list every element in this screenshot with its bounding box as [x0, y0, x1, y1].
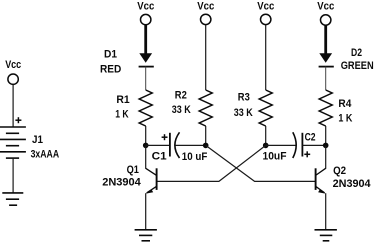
node B (R2/C1/cross wire)	[203, 143, 209, 149]
wire R4 to node D	[325, 126, 327, 145]
wire C1 to node B	[175, 144, 205, 146]
wire node B to Q2 base (cross-coupling)	[206, 145, 316, 181]
wire node C to C2 plate	[266, 144, 296, 146]
svg-text:R1: R1	[116, 94, 129, 106]
wire Q2 emitter to ground	[325, 193, 327, 230]
svg-text:Q1: Q1	[127, 164, 139, 176]
svg-text:2N3904: 2N3904	[102, 177, 141, 189]
svg-text:3xAAA: 3xAAA	[31, 148, 59, 160]
resistor R2 33K	[172, 90, 212, 126]
wire Vcc2 to R2	[205, 25, 207, 90]
LED D2 GREEN	[319, 25, 374, 72]
svg-text:10uF: 10uF	[263, 151, 287, 163]
Vcc terminal (battery branch)	[5, 59, 21, 84]
transistor Q2 2N3904	[316, 165, 372, 194]
svg-text:Vcc: Vcc	[197, 0, 214, 12]
resistor R4 1K	[319, 90, 353, 126]
ground (Q1 emitter)	[135, 230, 157, 241]
resistor R3 33K	[234, 90, 272, 126]
wire R1 to node A	[145, 126, 147, 145]
svg-text:C1: C1	[152, 150, 167, 162]
node D (R4/C2/Q2 collector)	[323, 143, 329, 149]
svg-text:J1: J1	[32, 134, 43, 146]
wire D1 cathode to R1	[145, 67, 147, 90]
wire R2 to node B	[205, 126, 207, 145]
svg-text:GREEN: GREEN	[341, 60, 374, 72]
svg-text:RED: RED	[100, 63, 121, 75]
wire R3 to node C	[265, 126, 267, 145]
svg-text:33 K: 33 K	[234, 107, 254, 119]
Vcc terminal 1 (D1 branch)	[137, 0, 154, 24]
svg-text:1 K: 1 K	[338, 113, 353, 125]
svg-text:C2: C2	[305, 132, 316, 144]
svg-text:D1: D1	[104, 49, 117, 61]
svg-text:2N3904: 2N3904	[333, 178, 372, 190]
svg-text:R2: R2	[175, 90, 187, 102]
wire node A to C1 plate	[146, 144, 170, 146]
svg-text:Vcc: Vcc	[5, 59, 21, 71]
svg-text:1 K: 1 K	[115, 108, 129, 120]
LED D1 RED	[100, 25, 154, 75]
wire C2 to node D	[302, 144, 325, 146]
svg-text:R4: R4	[338, 98, 352, 110]
node C (R3/C2/cross wire)	[263, 143, 269, 149]
Vcc terminal 4 (D2 branch)	[317, 0, 334, 25]
node A (R1/C1/Q1 collector)	[143, 143, 149, 149]
capacitor C2 10uF	[263, 132, 316, 163]
svg-text:33 K: 33 K	[172, 104, 192, 116]
svg-text:10 uF: 10 uF	[182, 151, 208, 163]
battery J1 3xAAA	[0, 117, 59, 160]
wire Q1 emitter to ground	[145, 193, 147, 230]
wire node D to Q2 collector	[325, 145, 327, 168]
capacitor C1 10uF	[152, 132, 208, 163]
Vcc terminal 3 (R3 branch)	[257, 0, 274, 24]
svg-text:Q2: Q2	[333, 165, 346, 177]
wire node A to Q1 collector	[145, 145, 147, 168]
ground (Q2 emitter)	[315, 230, 337, 241]
wire battery negative to ground	[12, 158, 14, 193]
ground (battery)	[2, 193, 23, 205]
transistor Q1 2N3904	[102, 164, 156, 194]
svg-text:D2: D2	[351, 47, 362, 59]
svg-text:R3: R3	[238, 92, 250, 104]
Vcc terminal 2 (R2 branch)	[197, 0, 214, 24]
wire Vcc terminal to battery positive	[12, 85, 14, 127]
resistor R1 1K	[115, 90, 152, 126]
svg-text:Vcc: Vcc	[257, 0, 274, 12]
svg-text:Vcc: Vcc	[317, 0, 334, 12]
wire Vcc3 to R3	[265, 25, 267, 90]
wire D2 cathode to R4	[325, 67, 327, 90]
wire node C to Q1 base (cross-coupling)	[157, 145, 266, 181]
svg-text:Vcc: Vcc	[137, 0, 154, 12]
